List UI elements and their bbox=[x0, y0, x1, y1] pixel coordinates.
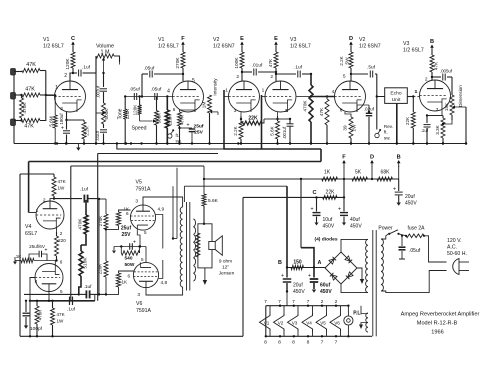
svg-text:47K: 47K bbox=[319, 107, 325, 116]
svg-text:+: + bbox=[61, 126, 64, 132]
wire cathode V4a bbox=[57, 227, 63, 236]
svg-text:450V: 450V bbox=[320, 289, 332, 295]
svg-text:Echo: Echo bbox=[390, 91, 401, 97]
svg-text:.1uf: .1uf bbox=[421, 128, 429, 133]
resistor 120K osc 1 bbox=[123, 108, 130, 120]
svg-text:.002uf: .002uf bbox=[96, 85, 101, 98]
wire V4b cathode link bbox=[54, 261, 56, 264]
wire plate V1a bbox=[70, 72, 74, 81]
heater top line bbox=[266, 305, 350, 307]
capacitor .05uf line bbox=[399, 235, 421, 259]
wire left rail bbox=[19, 174, 21, 336]
svg-text:D: D bbox=[370, 155, 374, 161]
potentiometer 15K dimension bbox=[444, 95, 454, 120]
resistor 2.2K cathode V1a bbox=[65, 120, 89, 145]
node B on row bbox=[397, 155, 401, 180]
wire echo to rev switch bbox=[376, 97, 378, 130]
output transformer secondary bbox=[193, 219, 195, 281]
svg-text:.1uf: .1uf bbox=[80, 187, 89, 193]
tube V3a 1/2 6SL7 bbox=[262, 74, 296, 113]
resistor 2.2K cathode V2a bbox=[233, 112, 243, 145]
svg-text:B: B bbox=[397, 155, 401, 161]
svg-text:5W: 5W bbox=[345, 57, 350, 65]
wire plug lower to primary bbox=[381, 271, 447, 293]
label V4 6SL7 bbox=[25, 224, 37, 237]
bridge bottom wire bbox=[341, 284, 368, 293]
svg-text:3: 3 bbox=[234, 108, 237, 113]
svg-text:V3: V3 bbox=[290, 37, 296, 43]
node C label bbox=[312, 190, 316, 196]
svg-text:3.3K: 3.3K bbox=[435, 124, 440, 134]
potentiometer 500K speed bbox=[155, 97, 162, 145]
svg-text:2: 2 bbox=[425, 77, 428, 83]
svg-text:25uf/6V: 25uf/6V bbox=[29, 244, 46, 249]
label V3 1/2 6SL7 bbox=[290, 37, 311, 50]
capacitor 40uf 450V bbox=[338, 197, 362, 229]
input jack J2 bbox=[11, 93, 16, 100]
svg-text:1W: 1W bbox=[58, 186, 66, 191]
wire cathode V1b bbox=[173, 107, 195, 112]
svg-text:1K: 1K bbox=[122, 280, 129, 285]
heater V1 bbox=[260, 299, 271, 346]
wire 22K to cathode V3a bbox=[264, 118, 278, 120]
svg-text:V2: V2 bbox=[213, 37, 219, 43]
wire mid horizontal y153 bbox=[98, 153, 218, 155]
svg-text:5: 5 bbox=[192, 78, 195, 84]
svg-text:3: 3 bbox=[137, 292, 140, 298]
svg-text:ft.: ft. bbox=[176, 133, 180, 138]
tube V1a 1/2 6SL7 bbox=[55, 73, 86, 112]
resistor 470K bold bbox=[303, 74, 314, 145]
svg-text:V1: V1 bbox=[264, 320, 270, 325]
svg-text:8: 8 bbox=[292, 340, 295, 346]
svg-text:.05uf: .05uf bbox=[151, 87, 162, 93]
power transformer core bbox=[373, 230, 376, 336]
wire reverb vertical bold bbox=[320, 149, 322, 162]
wire jack3 row bbox=[14, 120, 22, 122]
ground symbol on bus bbox=[76, 144, 80, 151]
resistor 510K bold mid bbox=[79, 245, 89, 294]
svg-text:1M: 1M bbox=[202, 102, 208, 109]
wire bottom rail bbox=[20, 335, 243, 337]
label Tone bbox=[118, 108, 124, 119]
svg-text:Model R-12-R-B: Model R-12-R-B bbox=[417, 321, 458, 327]
input jack J1 bbox=[11, 69, 16, 76]
svg-text:47K: 47K bbox=[268, 58, 274, 67]
label V6 7591A bbox=[136, 301, 152, 314]
svg-text:7591A: 7591A bbox=[136, 186, 152, 192]
svg-text:7: 7 bbox=[307, 299, 310, 305]
capacitor .01uf interstage bbox=[242, 63, 277, 76]
bridge rectifier diamond bbox=[325, 252, 357, 284]
wire vib inject horiz bold bbox=[224, 148, 322, 150]
resistor 47K (input 1) bbox=[22, 62, 40, 73]
svg-text:510K: 510K bbox=[83, 257, 89, 269]
volume wiper bbox=[102, 58, 105, 74]
power transformer primary bbox=[381, 239, 383, 291]
svg-text:F: F bbox=[342, 155, 346, 161]
svg-text:V3: V3 bbox=[292, 320, 298, 325]
capacitor .1uf V3a out bbox=[276, 65, 312, 78]
wire coupling to volume bbox=[95, 56, 97, 73]
wire dashed echo to V3b grid bbox=[413, 96, 419, 98]
wire NFB horizontal bbox=[71, 165, 204, 167]
svg-text:V6: V6 bbox=[136, 301, 142, 307]
svg-text:6: 6 bbox=[60, 260, 63, 265]
svg-text:B: B bbox=[430, 39, 434, 45]
svg-text:.005uf: .005uf bbox=[440, 69, 453, 74]
capacitor .002uf bbox=[96, 72, 108, 103]
svg-text:180uf: 180uf bbox=[59, 113, 64, 125]
svg-text:C: C bbox=[312, 190, 316, 196]
svg-text:47K: 47K bbox=[434, 61, 439, 70]
capacitor 10uf 450V bbox=[310, 197, 334, 229]
tube V2a 1/2 6SN7 bbox=[225, 74, 259, 113]
node A label bbox=[318, 260, 322, 266]
svg-text:Jensen: Jensen bbox=[219, 271, 235, 277]
svg-text:Tone: Tone bbox=[118, 108, 124, 119]
wire x95 to grid row bbox=[94, 294, 96, 300]
label V2 1/2 6SN7 (b) bbox=[359, 37, 381, 50]
svg-text:3: 3 bbox=[285, 108, 288, 113]
wire 47K2 to grid node bbox=[40, 94, 58, 96]
svg-text:.05uf: .05uf bbox=[144, 66, 155, 72]
tube V4a 6SL7 bbox=[36, 198, 64, 230]
svg-text:7: 7 bbox=[292, 299, 295, 305]
wire reverb to V4a grid bold bbox=[28, 162, 30, 213]
svg-text:68K: 68K bbox=[381, 170, 391, 176]
svg-text:Intensity: Intensity bbox=[213, 78, 218, 96]
svg-text:.01uf: .01uf bbox=[95, 130, 100, 141]
svg-text:+: + bbox=[338, 207, 341, 213]
wire 470K/510K bold column bbox=[85, 199, 87, 210]
svg-text:4: 4 bbox=[332, 89, 335, 95]
label 120V AC bbox=[447, 238, 467, 257]
svg-text:4,9: 4,9 bbox=[158, 207, 165, 213]
heater left vert bbox=[265, 306, 267, 337]
resistor 220 cathode V4a bbox=[55, 236, 67, 262]
svg-text:500K: 500K bbox=[157, 112, 162, 124]
power transformer HV winding bbox=[366, 239, 368, 292]
resistor 5.6K feedback bbox=[202, 194, 219, 225]
heater V4 bbox=[302, 299, 313, 346]
resistor 5.6K cathode V3a bbox=[270, 112, 280, 145]
svg-text:40uf: 40uf bbox=[350, 217, 360, 223]
heater V2 bbox=[274, 299, 285, 346]
wire B+ row bbox=[203, 178, 399, 180]
wire input jack bus bbox=[13, 69, 15, 144]
pilot lamp P.L. bbox=[344, 306, 363, 337]
capacitor 180uf cathode bbox=[59, 113, 70, 144]
svg-text:4,8: 4,8 bbox=[161, 280, 168, 286]
resistor 100K plate V2a bbox=[234, 46, 244, 81]
potentiometer 1M intensity bbox=[202, 74, 212, 145]
svg-text:50-60 H.: 50-60 H. bbox=[447, 251, 467, 257]
svg-text:V5: V5 bbox=[320, 320, 326, 325]
svg-text:120K: 120K bbox=[133, 104, 138, 116]
svg-text:.05uf: .05uf bbox=[129, 87, 140, 93]
wire OT center tap bbox=[178, 186, 183, 247]
capacitor .1uf V3b cathode bbox=[421, 116, 431, 145]
wire B node drop bold bbox=[286, 186, 288, 267]
echo unit box bbox=[385, 88, 408, 104]
heater winding taps bbox=[357, 306, 368, 314]
svg-text:+: + bbox=[133, 240, 136, 246]
svg-text:1W: 1W bbox=[57, 319, 65, 324]
svg-text:5: 5 bbox=[141, 257, 144, 262]
svg-text:2.2K: 2.2K bbox=[233, 125, 238, 135]
wire B+ to OT bbox=[184, 186, 287, 202]
svg-text:2: 2 bbox=[335, 299, 338, 305]
svg-text:+: + bbox=[310, 207, 313, 213]
resistor 47K plate V3b bbox=[430, 49, 439, 80]
svg-text:1/2 6SL7: 1/2 6SL7 bbox=[158, 44, 179, 50]
wire 47K3 right bbox=[40, 71, 46, 121]
capacitor 100pf bbox=[23, 300, 43, 332]
wire C to F junction bbox=[343, 179, 345, 197]
wire bus U-link bbox=[116, 142, 224, 149]
wire V6 cathode bbox=[145, 247, 147, 263]
svg-text:V5: V5 bbox=[136, 180, 142, 186]
capacitor 25uf 25V cathode bbox=[121, 226, 136, 250]
capacitor 25uf 25V cathode bypass bbox=[180, 123, 204, 144]
svg-text:47K: 47K bbox=[25, 87, 35, 93]
wire NFB drop left bbox=[70, 166, 72, 301]
wire main ground bus bbox=[14, 142, 467, 144]
svg-text:2: 2 bbox=[60, 231, 63, 236]
bridge right ground bbox=[357, 268, 364, 284]
capacitor .02uf bbox=[364, 97, 375, 145]
svg-text:25V: 25V bbox=[194, 130, 203, 136]
svg-text:.001uf: .001uf bbox=[282, 126, 287, 139]
svg-text:.5uf: .5uf bbox=[367, 65, 376, 71]
heater V5 bbox=[316, 299, 327, 346]
svg-text:120K: 120K bbox=[65, 58, 71, 70]
svg-text:fuse 2A: fuse 2A bbox=[408, 226, 426, 232]
resistor 22K cathode-cathode bbox=[241, 116, 264, 126]
svg-text:50W: 50W bbox=[125, 262, 135, 268]
label Dimension bbox=[458, 85, 463, 107]
primary top wire bbox=[381, 234, 389, 240]
tube V2b 1/2 6SN7 bbox=[332, 74, 366, 113]
svg-text:450V: 450V bbox=[405, 201, 417, 207]
svg-text:25V: 25V bbox=[122, 232, 132, 238]
label Intensity bbox=[213, 78, 218, 96]
svg-text:6: 6 bbox=[126, 211, 129, 216]
wire vib inject V2a bold bbox=[224, 90, 229, 149]
svg-text:7591A: 7591A bbox=[136, 308, 152, 314]
wire dimension out bbox=[465, 107, 467, 145]
svg-text:.1uf: .1uf bbox=[82, 65, 91, 71]
wire reverb return long bold bbox=[29, 161, 321, 163]
svg-text:39: 39 bbox=[343, 125, 348, 131]
svg-text:8: 8 bbox=[278, 340, 281, 346]
svg-text:+: + bbox=[187, 123, 190, 129]
node C supply bbox=[71, 36, 75, 49]
capacitor .1uf coupling V1a bbox=[73, 65, 96, 77]
svg-text:4.7K: 4.7K bbox=[180, 114, 185, 124]
wire V5 plate to OT bbox=[143, 197, 183, 207]
tube V6 7591A bbox=[127, 257, 167, 298]
bridge left to A bbox=[325, 267, 326, 270]
resistor 22K supply C bbox=[323, 190, 337, 200]
svg-text:1/2 6SN7: 1/2 6SN7 bbox=[213, 44, 235, 50]
wire V5 cathode bbox=[137, 230, 147, 247]
svg-text:2.2K: 2.2K bbox=[84, 125, 89, 135]
svg-text:47K: 47K bbox=[58, 179, 67, 184]
label V5 7591A bbox=[136, 180, 152, 193]
wire 47K1 right bbox=[40, 70, 46, 72]
wire C rail loop bbox=[242, 197, 244, 336]
tube V4b 6SL7 inverted bbox=[35, 264, 63, 295]
svg-text:1: 1 bbox=[415, 89, 418, 95]
svg-text:V6: V6 bbox=[334, 320, 340, 325]
svg-text:22K: 22K bbox=[405, 116, 410, 125]
wire vib inject V3a bold bbox=[261, 95, 263, 149]
power transformer heater winding bbox=[366, 313, 368, 332]
svg-text:25uf: 25uf bbox=[193, 124, 203, 130]
rev foot switch bbox=[375, 124, 393, 141]
speed wiper bbox=[140, 115, 156, 123]
svg-text:.1uf: .1uf bbox=[83, 284, 92, 290]
svg-text:1K: 1K bbox=[324, 170, 331, 176]
capacitor .1uf to V6 bold bbox=[80, 284, 107, 298]
svg-text:2W: 2W bbox=[352, 124, 357, 132]
svg-text:10uf: 10uf bbox=[323, 217, 333, 223]
svg-text:100K: 100K bbox=[234, 57, 240, 69]
capacitor .1uf V4a out bold bbox=[80, 187, 99, 203]
svg-text:.02uf: .02uf bbox=[364, 107, 375, 112]
diode D1 bbox=[329, 257, 336, 264]
svg-text:2: 2 bbox=[236, 74, 239, 80]
speaker network box bbox=[198, 224, 212, 268]
svg-text:1K: 1K bbox=[16, 254, 23, 259]
heater V6 bbox=[330, 299, 341, 346]
svg-text:7: 7 bbox=[278, 299, 281, 305]
capacitor 20uf 450V node B bbox=[393, 179, 417, 207]
svg-text:+: + bbox=[393, 187, 396, 193]
resistor 1K grid stopper V6 bbox=[106, 271, 134, 294]
svg-text:D: D bbox=[349, 36, 353, 42]
svg-text:+: + bbox=[281, 273, 284, 279]
wire B-A row bbox=[286, 266, 326, 268]
capacitor .001uf osc bbox=[278, 118, 294, 145]
output transformer core bbox=[187, 202, 190, 291]
wire jack1 to 47K bbox=[14, 71, 22, 73]
node grid V1a bbox=[46, 85, 58, 96]
svg-text:1/2 6SL7: 1/2 6SL7 bbox=[403, 48, 424, 54]
svg-text:20uf: 20uf bbox=[293, 283, 303, 289]
resistor 120K plate V1a bbox=[65, 46, 75, 73]
resistor 22K echo return bbox=[405, 97, 415, 145]
svg-text:Power: Power bbox=[378, 226, 393, 232]
svg-text:150: 150 bbox=[293, 260, 302, 266]
svg-text:100pf: 100pf bbox=[30, 326, 43, 332]
svg-text:V3: V3 bbox=[403, 41, 409, 47]
svg-text:F: F bbox=[181, 36, 185, 42]
svg-text:47K: 47K bbox=[57, 312, 66, 317]
wire intensity drop bbox=[217, 115, 219, 152]
wire plate V4a node bbox=[50, 197, 82, 201]
svg-text:.05uf: .05uf bbox=[409, 248, 421, 254]
svg-text:3: 3 bbox=[60, 106, 63, 111]
intensity wiper bbox=[210, 110, 218, 115]
svg-text:1: 1 bbox=[225, 88, 228, 94]
label (4) diodes bbox=[314, 237, 337, 243]
label V1 1/2 6SL7 bbox=[43, 37, 64, 50]
svg-text:22K: 22K bbox=[248, 116, 258, 122]
svg-text:(4) diodes: (4) diodes bbox=[314, 237, 337, 243]
capacitor .05uf osc top bbox=[141, 66, 183, 98]
wire speaker bottom ground bbox=[203, 268, 207, 285]
svg-text:B: B bbox=[278, 260, 282, 266]
svg-text:1: 1 bbox=[262, 88, 265, 94]
wire cathode V3b bbox=[421, 111, 442, 117]
wire F row to A node bbox=[301, 179, 314, 268]
output transformer primary bbox=[180, 207, 182, 287]
resistor 470K tail bbox=[35, 300, 43, 338]
ground cathode node bbox=[112, 247, 116, 254]
capacitor .5uf echo send bbox=[351, 65, 377, 78]
capacitor 20uf 450V bbox=[281, 268, 305, 306]
wire V4a cathode to V4b bbox=[57, 260, 63, 265]
bridge top wire bbox=[341, 239, 368, 252]
svg-text:+: + bbox=[308, 273, 311, 279]
wire volume top to next grid bbox=[120, 63, 126, 65]
speaker bbox=[209, 236, 223, 256]
wire V5 screen bbox=[156, 215, 163, 249]
svg-text:Speed: Speed bbox=[131, 126, 146, 132]
svg-text:6: 6 bbox=[127, 274, 130, 279]
wire grid V2a bold bbox=[224, 90, 229, 97]
wire plate V4b bbox=[48, 292, 50, 301]
svg-text:47K: 47K bbox=[24, 124, 34, 130]
title line 2 bbox=[417, 321, 458, 327]
title line 3 bbox=[431, 330, 443, 336]
resistor 47K mix bbox=[319, 95, 329, 144]
wire mid vertical x98 bbox=[97, 154, 99, 301]
svg-text:Ampeg Reverberocket Amplifier: Ampeg Reverberocket Amplifier bbox=[401, 312, 480, 318]
fuse 2A bbox=[399, 226, 426, 238]
svg-text:8: 8 bbox=[264, 340, 267, 346]
wire grid V3a bold bbox=[262, 96, 266, 98]
resistor 1K supply bbox=[322, 170, 338, 182]
svg-text:450V: 450V bbox=[323, 224, 335, 230]
echo box ground lead bbox=[396, 103, 398, 144]
wire V4b out bold bbox=[30, 300, 95, 302]
wire C row bbox=[243, 196, 345, 198]
potentiometer 500K tone bbox=[102, 103, 111, 124]
svg-text:V1: V1 bbox=[43, 37, 49, 43]
wire V3a plate to V2b grid bbox=[297, 95, 335, 97]
diode D4 bbox=[346, 272, 353, 279]
svg-text:6: 6 bbox=[173, 107, 176, 112]
svg-text:7: 7 bbox=[321, 340, 324, 346]
capacitor .005uf out bbox=[432, 69, 453, 96]
svg-text:6SL7: 6SL7 bbox=[25, 231, 37, 237]
svg-text:7: 7 bbox=[264, 299, 267, 305]
svg-text:7: 7 bbox=[335, 340, 338, 346]
capacitor .05uf osc A bbox=[129, 87, 140, 101]
resistor 47K 1W out bbox=[51, 300, 66, 338]
resistor 270K grid V5 bbox=[98, 199, 108, 229]
resistor 68K supply bbox=[377, 170, 393, 182]
wire plug bottom return bbox=[441, 271, 447, 279]
label V2 1/2 6SN7 bbox=[213, 37, 235, 50]
svg-text:470K: 470K bbox=[303, 100, 309, 112]
svg-text:470K: 470K bbox=[38, 309, 43, 321]
capacitor .05uf osc B bbox=[151, 87, 169, 101]
